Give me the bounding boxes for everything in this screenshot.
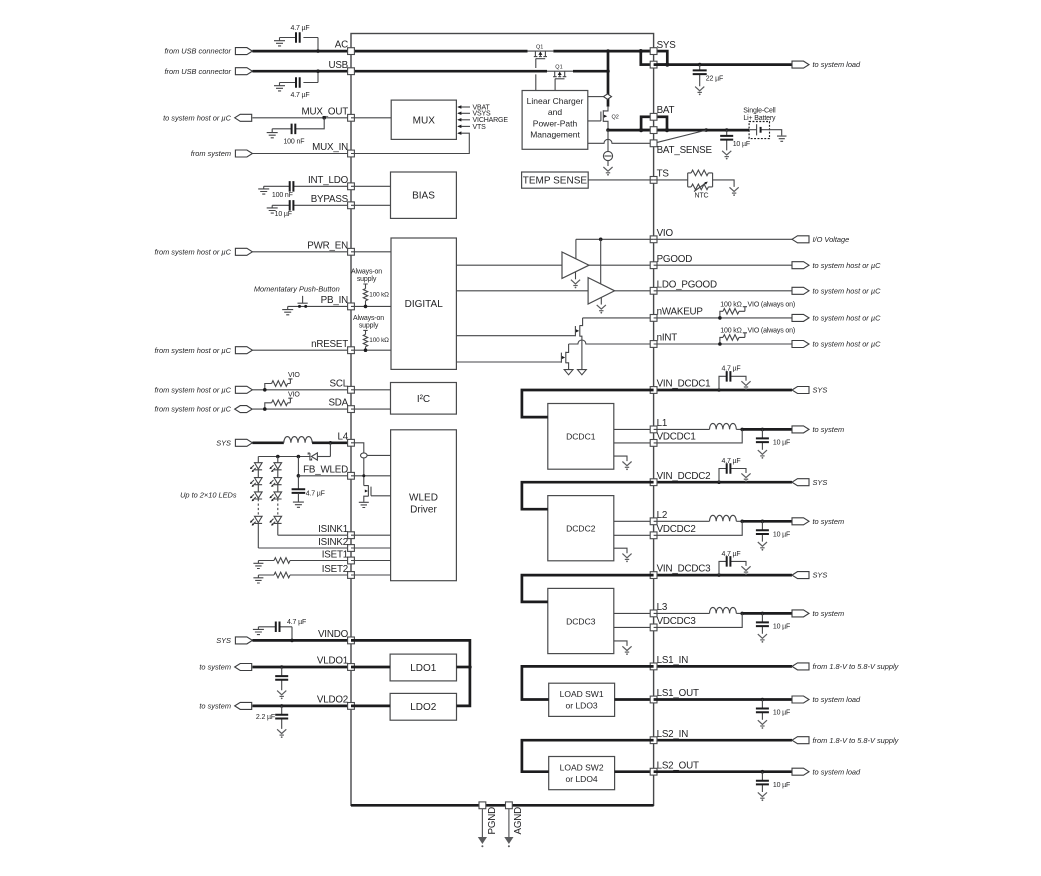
svg-text:Q1: Q1	[536, 44, 543, 50]
capacitor 4.7uF WLED output	[292, 489, 306, 493]
resistor pull-up SCL to VIO	[265, 384, 291, 390]
wire MUX_OUT internal	[351, 117, 391, 119]
input tag SYS (L4)	[235, 439, 252, 446]
block WLED Driver	[391, 430, 457, 581]
ground MUX_OUT cap	[267, 132, 278, 138]
comparator U_LDOPGOOD (triangle)	[588, 278, 615, 304]
wire nINT external	[654, 343, 792, 345]
wire MUX_IN external	[252, 153, 351, 155]
wire DIGITAL to Q3 gate	[456, 335, 575, 337]
pin nINT	[650, 341, 657, 348]
ground comparator 1	[575, 272, 577, 279]
output tag to system (VLDO2)	[235, 702, 252, 709]
ground DCDC3	[622, 646, 631, 650]
svg-text:L1: L1	[657, 418, 668, 429]
wire switch node vertical	[363, 458, 365, 486]
svg-text:BAT_SENSE: BAT_SENSE	[657, 145, 713, 156]
pin L2	[650, 518, 657, 525]
wire LS1_OUT external	[654, 698, 792, 701]
pin BAT_SENSE	[650, 140, 657, 147]
svg-text:to system host or µC: to system host or µC	[813, 261, 882, 270]
svg-text:4.7 µF: 4.7 µF	[721, 458, 740, 465]
pin ISET2	[348, 572, 355, 579]
inductor L2	[710, 515, 737, 521]
MUX input arrows VBAT VSYS VICHARGE VTS	[458, 106, 470, 108]
junction VINDO to LDO1	[468, 665, 472, 669]
wire USB to SYS node	[573, 70, 608, 73]
diamond current-sense on charger output	[588, 96, 604, 98]
wire boost diode branch down	[329, 443, 331, 457]
pin PB_IN	[348, 303, 355, 310]
svg-text:10 µF: 10 µF	[733, 141, 750, 148]
svg-text:VTS: VTS	[473, 124, 487, 131]
svg-text:NTC: NTC	[695, 193, 709, 200]
svg-text:L2: L2	[657, 510, 668, 521]
svg-text:4.7 µF: 4.7 µF	[290, 25, 309, 32]
ground 22uF	[695, 87, 704, 91]
block I2C interface U_i2c	[391, 383, 457, 415]
wire NTC network to ground	[713, 180, 735, 187]
svg-text:nWAKEUP: nWAKEUP	[657, 307, 704, 318]
wire VIN_DCDC3 external	[654, 574, 792, 577]
ground ISET1	[253, 561, 263, 569]
junction rail right column	[276, 455, 280, 459]
pin SCL	[348, 386, 355, 393]
svg-text:TEMP SENSE: TEMP SENSE	[523, 176, 588, 187]
svg-text:Always-on: Always-on	[353, 315, 384, 322]
svg-text:from USB connector: from USB connector	[164, 47, 231, 56]
ground INT_LDO cap	[258, 186, 269, 194]
junction FB_WLED internal cross	[362, 474, 365, 477]
wire PGOOD external	[654, 264, 792, 266]
wire SCL	[252, 389, 351, 391]
svg-text:10 µF: 10 µF	[773, 532, 790, 539]
input tag supply (LS2_IN)	[792, 737, 809, 744]
junction VIO comparator 2	[599, 238, 603, 242]
junction output cap DCDC1	[761, 428, 765, 432]
pin nWAKEUP	[650, 315, 657, 322]
ground WLED cap	[293, 502, 304, 508]
ground comparator 2	[600, 298, 602, 305]
svg-text:100 nF: 100 nF	[283, 138, 304, 145]
svg-text:L3: L3	[657, 602, 668, 613]
resistor 100k pull-up nRESET	[363, 334, 367, 346]
wire ISINK2 internal	[351, 547, 391, 549]
wire VIO internal	[576, 238, 654, 240]
wire DIGITAL to comparator 1	[456, 264, 562, 266]
wire DCDC1 ground	[614, 456, 627, 461]
svg-text:10 µF: 10 µF	[275, 211, 292, 218]
ground ISET2	[253, 575, 263, 583]
transistor Q3 (nWAKEUP open drain)	[575, 318, 582, 370]
svg-text:100 nF: 100 nF	[272, 192, 293, 199]
diode D1 (WLED boost, Schottky)	[311, 453, 317, 460]
pin VLDO2	[348, 703, 355, 710]
wire AC internal	[351, 50, 528, 53]
ground DCDC1	[622, 462, 631, 466]
wire DCDC1 L output internal	[614, 428, 654, 430]
svg-text:4.7 µF: 4.7 µF	[721, 366, 740, 373]
pin L3	[650, 610, 657, 617]
svg-text:BIAS: BIAS	[412, 191, 435, 202]
junction PB_IN pull-up	[364, 305, 368, 309]
svg-text:VIN_DCDC3: VIN_DCDC3	[657, 564, 711, 575]
svg-text:SYS: SYS	[216, 438, 231, 447]
wire USB internal	[351, 70, 547, 73]
pin VDCDC1	[650, 440, 657, 447]
capacitor 100nF on INT_LDO	[264, 185, 351, 187]
wire ISET2 internal	[351, 574, 391, 576]
svg-text:AGND: AGND	[513, 807, 524, 835]
svg-text:to system: to system	[199, 702, 231, 711]
wire L1 to inductor	[654, 428, 710, 430]
svg-text:22 µF: 22 µF	[706, 76, 723, 83]
wire LED anode rail	[258, 456, 310, 458]
svg-text:MUX_OUT: MUX_OUT	[302, 106, 349, 117]
junction USB-SYS	[606, 69, 610, 73]
svg-text:nRESET: nRESET	[311, 339, 348, 350]
wire VIO to comparator 1 supply	[575, 239, 577, 258]
svg-text:TS: TS	[657, 169, 670, 180]
pin VIN_DCDC1	[650, 387, 657, 394]
svg-text:SCL: SCL	[330, 378, 349, 389]
block LDO2	[390, 693, 456, 720]
wire LS2_OUT external	[654, 770, 792, 773]
svg-text:VIO: VIO	[657, 228, 674, 239]
wire VDCDC2 sense external	[654, 521, 743, 535]
pin MUX_IN	[348, 150, 355, 157]
pin TS	[650, 177, 657, 184]
wire PB_IN internal	[351, 305, 391, 307]
svg-text:Q1: Q1	[555, 64, 562, 70]
wire VINDO to LDO1	[457, 666, 470, 669]
wire DCDC2 ground	[614, 548, 627, 553]
capacitor 4.7uF on VIN_DCDC3	[719, 561, 746, 575]
svg-text:VIO: VIO	[288, 372, 300, 379]
wire nRESET	[252, 349, 351, 351]
svg-text:VIO: VIO	[288, 391, 300, 398]
ground 10uF LS2	[758, 792, 767, 796]
ground 10uF DCDC2	[758, 542, 767, 546]
transistor Q2 (battery FET)	[603, 107, 608, 131]
junction AC cap	[316, 49, 320, 53]
svg-text:from system host or µC: from system host or µC	[154, 346, 231, 355]
wire VDCDC2 output	[742, 520, 792, 523]
pin LDO_PGOOD	[650, 287, 657, 294]
ground 10uF DCDC1	[758, 450, 767, 454]
ground below current source	[603, 167, 612, 171]
wire DCDC2 L output internal	[614, 520, 654, 522]
junction L1 feedback	[740, 428, 744, 432]
svg-text:VLDO1: VLDO1	[317, 656, 348, 667]
pin INT_LDO	[348, 183, 355, 190]
svg-text:LDO2: LDO2	[410, 702, 437, 713]
capacitor 4.7uF on USB	[280, 71, 319, 82]
input tag from system host (nRESET)	[235, 347, 252, 354]
ground battery	[777, 135, 787, 141]
resistor (parallel with NTC)	[691, 170, 708, 176]
svg-text:from USB connector: from USB connector	[164, 67, 231, 76]
block Linear Charger and Power-Path Management U_chg	[522, 91, 588, 150]
capacitor 22uF on SYS	[699, 65, 701, 87]
wire FB_WLED internal	[351, 475, 391, 477]
battery plates	[749, 129, 769, 131]
svg-text:to system load: to system load	[813, 60, 862, 69]
pin VDCDC2	[650, 532, 657, 539]
wire inductor to output node	[736, 428, 742, 430]
wire LS1_IN internal feed	[522, 666, 654, 699]
wire AGND	[508, 809, 510, 838]
comparator U_PGOOD (triangle)	[562, 252, 589, 278]
pin L4	[348, 439, 355, 446]
input tag SYS (VIN_DCDC1)	[792, 387, 809, 394]
svg-text:ISINK1: ISINK1	[318, 524, 348, 535]
block DCDC1	[548, 404, 614, 470]
wire AC through Q1 region	[528, 50, 554, 52]
block DCDC2	[548, 496, 614, 561]
svg-text:I²C: I²C	[417, 394, 430, 405]
capacitor on VLDO1	[281, 667, 283, 690]
wire BAT_SENSE external diagonal	[654, 130, 707, 143]
wire L4 internal to switch	[351, 443, 364, 453]
junction 22uF	[698, 63, 702, 67]
bidirectional tag from system host (SDA)	[235, 406, 253, 413]
pin PGOOD	[650, 262, 657, 269]
resistor NTC	[691, 184, 708, 190]
wire Q3 drain to nWAKEUP pin	[583, 317, 654, 319]
wire SDA internal	[351, 408, 391, 410]
svg-text:VIO (always on): VIO (always on)	[748, 328, 796, 335]
input tag I/O Voltage	[792, 236, 809, 243]
wire nRESET internal	[351, 349, 391, 351]
wire PWR_EN internal	[351, 251, 391, 253]
ground push-button	[287, 306, 289, 309]
capacitor 10uF on LS2_OUT	[761, 772, 763, 792]
svg-text:100 kΩ: 100 kΩ	[720, 302, 741, 309]
capacitor 2.2uF on VLDO2	[281, 706, 283, 729]
junction rail FB branch	[297, 455, 301, 459]
ground VIN_DCDC1 cap	[741, 381, 750, 385]
svg-text:BYPASS: BYPASS	[311, 194, 349, 205]
ground VLDO1 cap	[277, 691, 286, 695]
svg-text:nINT: nINT	[657, 333, 678, 344]
svg-text:AC: AC	[335, 40, 348, 51]
IC boundary rectangle	[351, 34, 654, 806]
junction VLDO1 cap	[280, 665, 284, 669]
svg-text:supply: supply	[357, 276, 377, 283]
svg-text:10 µF: 10 µF	[773, 710, 790, 717]
output tag to system host (nWAKEUP)	[792, 314, 809, 321]
svg-text:FB_WLED: FB_WLED	[303, 464, 348, 475]
svg-text:to system host or µC: to system host or µC	[813, 314, 882, 323]
ground VLDO2 cap	[277, 729, 286, 733]
svg-text:PB_IN: PB_IN	[321, 295, 348, 306]
svg-text:DCDC2: DCDC2	[566, 524, 596, 534]
wire battery to ground	[770, 130, 782, 136]
capacitor 100nF on MUX_OUT	[272, 118, 324, 132]
output tag to system host (MUX_OUT)	[235, 114, 252, 121]
svg-text:LS2_OUT: LS2_OUT	[657, 760, 699, 771]
ground BYPASS cap	[267, 205, 278, 213]
block DIGITAL	[391, 238, 456, 369]
svg-text:to system load: to system load	[813, 767, 862, 776]
capacitor 10uF on VDCDC3	[761, 613, 763, 633]
svg-text:Li+ Battery: Li+ Battery	[743, 115, 776, 122]
wire VINDO internal feed	[351, 640, 470, 706]
svg-text:SDA: SDA	[328, 398, 348, 409]
block LOAD SW2 or LDO4	[549, 757, 615, 790]
svg-text:VLDO2: VLDO2	[317, 695, 348, 706]
svg-text:Momentatary Push-Button: Momentatary Push-Button	[254, 284, 340, 293]
wire LS1_IN external	[654, 665, 792, 668]
output tag to system load (SYS)	[792, 61, 809, 68]
pin LS1_OUT	[650, 696, 657, 703]
svg-text:Up to 2×10 LEDs: Up to 2×10 LEDs	[180, 491, 237, 500]
wire VIN_DCDC2 external	[654, 481, 792, 484]
junction SDA pull-up	[263, 407, 267, 411]
junction Q2 source	[606, 128, 610, 132]
wire VDCDC3 output	[742, 612, 792, 615]
pin USB	[348, 68, 355, 75]
input tag from system (MUX_IN)	[235, 150, 252, 157]
svg-text:DCDC1: DCDC1	[566, 432, 596, 442]
wire LS2_IN external	[654, 739, 792, 742]
input tag supply (LS1_IN)	[792, 663, 809, 670]
pin nRESET	[348, 347, 355, 354]
inductor L1	[710, 423, 737, 429]
block LOAD SW1 or LDO3	[549, 683, 615, 716]
svg-text:INT_LDO: INT_LDO	[308, 175, 349, 186]
wire LS1_OUT internal	[615, 698, 654, 701]
wire SYS to VINDO pin	[252, 639, 351, 642]
svg-text:VIN_DCDC2: VIN_DCDC2	[657, 471, 711, 482]
svg-text:10 µF: 10 µF	[773, 624, 790, 631]
input tag from USB connector (USB)	[235, 68, 252, 75]
svg-text:VDCDC2: VDCDC2	[657, 524, 696, 535]
junction VIN_DCDC2 cap	[717, 480, 721, 484]
wire DCDC3 L output internal	[614, 612, 654, 614]
wire INT_LDO internal	[351, 185, 391, 187]
svg-text:Driver: Driver	[410, 505, 437, 516]
wire USB through Q1 region	[547, 70, 573, 72]
capacitor 4.7uF on VINDO	[258, 627, 292, 641]
wire ISET1 internal	[351, 560, 391, 562]
wire SYS to inductor L4	[252, 441, 283, 444]
pin BAT (top)	[650, 113, 657, 120]
svg-text:ISET2: ISET2	[322, 564, 348, 575]
svg-text:LOAD SW2: LOAD SW2	[560, 762, 604, 772]
wire comparator 2 to LDO_PGOOD pin	[615, 290, 654, 292]
junction nWAKEUP pull-up	[718, 316, 722, 320]
transistor Q1 (AC pass FET)	[535, 51, 545, 57]
pin AC	[348, 48, 355, 55]
wire PGND	[481, 809, 483, 838]
capacitor 10uF on BYPASS	[272, 204, 351, 206]
svg-text:from 1.8-V to 5.8-V supply: from 1.8-V to 5.8-V supply	[813, 662, 900, 671]
svg-text:VINDO: VINDO	[318, 629, 349, 640]
wire BAT pin strap (bridge rectangle)	[641, 117, 667, 130]
wire LS2_OUT internal	[615, 770, 654, 773]
resistor 100k pull-up PB_IN	[363, 289, 367, 301]
wire VDCDC1 sense internal	[614, 442, 654, 444]
pin VIN_DCDC3	[650, 572, 657, 579]
capacitor 10uF on BAT	[726, 130, 728, 150]
block LDO1	[390, 654, 456, 681]
ground BAT 10uF	[722, 151, 731, 155]
svg-text:Linear Charger: Linear Charger	[527, 96, 584, 106]
input tag SYS (VINDO)	[235, 637, 252, 644]
svg-text:to system: to system	[813, 425, 845, 434]
pin VLDO1	[348, 664, 355, 671]
wire VLDO1 external	[252, 666, 351, 669]
junction VINDO cap	[290, 639, 294, 643]
output tag to system (DCDC1)	[792, 426, 809, 433]
junction USB cap	[316, 69, 320, 73]
junction BAT sense tap	[704, 128, 708, 132]
svg-text:VDCDC1: VDCDC1	[657, 432, 696, 443]
svg-text:I/O Voltage: I/O Voltage	[813, 235, 850, 244]
junction AC-SYS	[606, 49, 610, 53]
ground DCDC2	[622, 554, 631, 558]
pin LS1_IN	[650, 663, 657, 670]
ground for USB cap	[274, 83, 285, 91]
wire PWR_EN	[252, 251, 351, 253]
block DCDC3	[548, 588, 614, 653]
svg-text:and: and	[548, 107, 562, 117]
svg-text:100 kΩ: 100 kΩ	[720, 328, 741, 335]
svg-text:10 µF: 10 µF	[773, 782, 790, 789]
IC bottom edge (thick)	[351, 804, 654, 807]
wire VDCDC1 sense external	[654, 429, 743, 443]
wire BYPASS internal	[351, 204, 391, 206]
output tag to system (DCDC3)	[792, 610, 809, 617]
wire BAT to battery	[654, 129, 750, 132]
current source symbol (battery)	[603, 151, 612, 160]
svg-text:4.7 µF: 4.7 µF	[306, 491, 325, 498]
wire VIO to comparator 2 supply	[600, 239, 602, 283]
wire SYS pin strap (bridge rectangle)	[641, 51, 668, 65]
output tag to system load (LS2)	[792, 768, 809, 775]
input tag from system host (PWR_EN)	[235, 248, 252, 255]
wire DIGITAL to Q4 gate	[456, 361, 561, 363]
pin LS2_OUT	[650, 768, 657, 775]
input tag from system host (SCL)	[235, 386, 252, 393]
capacitor 10uF on VDCDC2	[761, 521, 763, 541]
ground 10uF LS1	[758, 720, 767, 724]
pin ISINK1	[348, 532, 355, 539]
svg-text:ISINK2: ISINK2	[318, 537, 348, 548]
capacitor 10uF on LS1_OUT	[761, 700, 763, 720]
capacitor 4.7uF on AC	[280, 38, 319, 52]
wire L4 to pin	[312, 441, 351, 444]
pin BAT (bottom)	[650, 127, 657, 134]
wire ISINK2 external	[258, 547, 351, 549]
block TEMP SENSE	[522, 172, 589, 188]
wire ISINK1 external	[278, 534, 351, 536]
junction SCL pull-up	[263, 388, 267, 392]
svg-text:from system: from system	[191, 149, 231, 158]
svg-text:DIGITAL: DIGITAL	[405, 299, 444, 310]
junction output cap DCDC2	[761, 520, 765, 524]
svg-text:SYS: SYS	[813, 386, 828, 395]
svg-text:USB: USB	[328, 60, 348, 71]
pin SDA	[348, 406, 355, 413]
pin VIN_DCDC2	[650, 479, 657, 486]
svg-text:WLED: WLED	[409, 493, 438, 504]
junction nINT pull-up	[718, 342, 722, 346]
block BIAS	[391, 172, 457, 218]
wire L2 to inductor	[654, 520, 710, 522]
